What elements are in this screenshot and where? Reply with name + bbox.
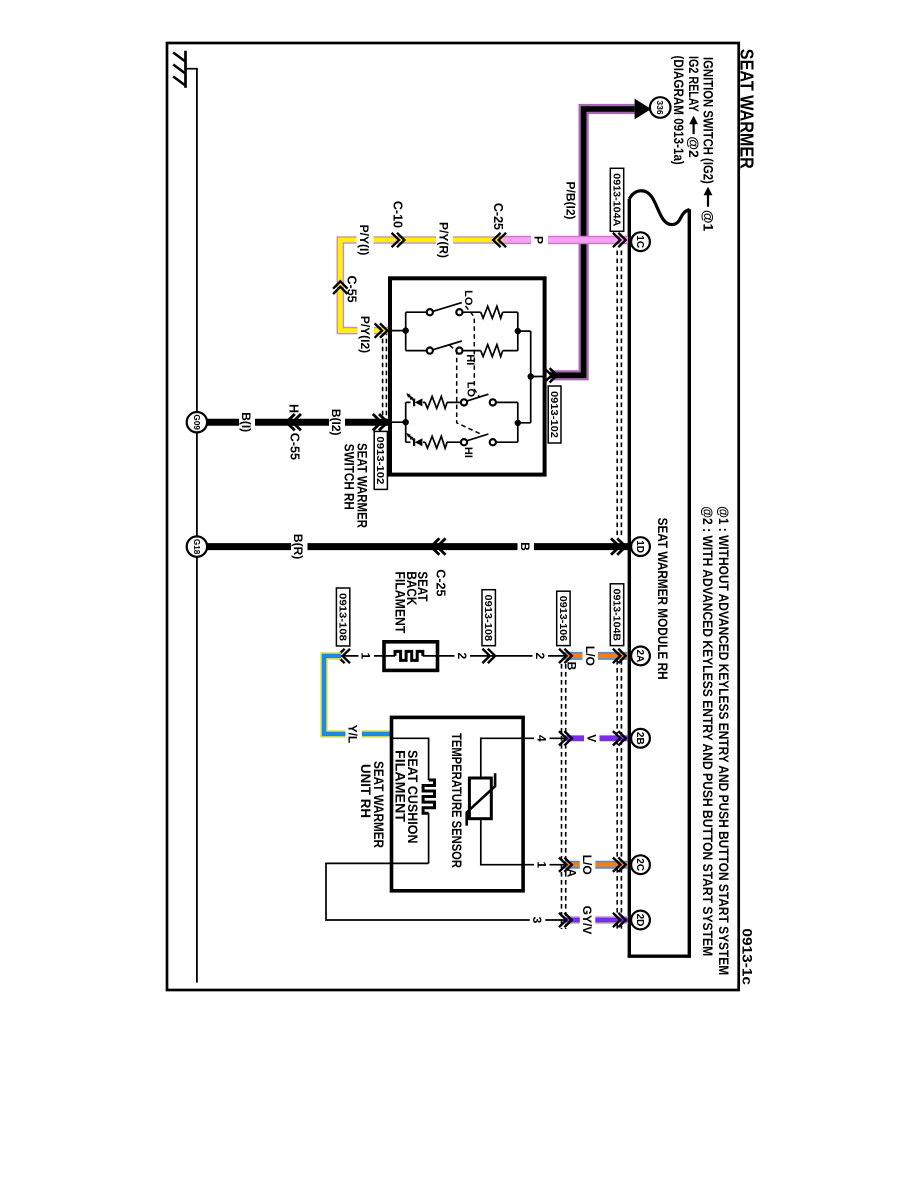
svg-text:LO: LO — [465, 382, 477, 398]
svg-text:Y/L: Y/L — [346, 725, 360, 744]
svg-text:P/B(I2): P/B(I2) — [564, 181, 578, 219]
svg-text:2: 2 — [455, 653, 469, 660]
svg-text:3: 3 — [530, 917, 544, 924]
svg-text:TEMPERATURE SENSOR: TEMPERATURE SENSOR — [449, 733, 464, 868]
svg-text:0913-108: 0913-108 — [482, 595, 493, 642]
svg-text:L/O: L/O — [580, 855, 594, 875]
svg-text:C-10: C-10 — [391, 201, 405, 228]
svg-text:B: B — [518, 542, 532, 551]
svg-text:0913-106: 0913-106 — [557, 596, 568, 642]
svg-text:C-25: C-25 — [491, 203, 505, 230]
svg-text:0913-108: 0913-108 — [337, 593, 348, 641]
svg-text:@2 : WITH ADVANCED KEYLESS ENT: @2 : WITH ADVANCED KEYLESS ENTRY AND PUS… — [700, 506, 716, 956]
svg-text:C-55: C-55 — [345, 276, 359, 303]
svg-text:B(I2): B(I2) — [329, 409, 343, 436]
svg-text:L/O: L/O — [583, 646, 597, 666]
svg-text:SWITCH RH: SWITCH RH — [341, 444, 357, 510]
svg-text:SEAT WARMER: SEAT WARMER — [737, 49, 757, 169]
svg-text:0913-102: 0913-102 — [374, 436, 385, 484]
svg-text:B(I): B(I) — [239, 412, 253, 432]
svg-text:P/Y(I): P/Y(I) — [357, 225, 371, 256]
svg-text:FILAMENT: FILAMENT — [393, 571, 408, 634]
svg-text:0913-104A: 0913-104A — [610, 173, 621, 226]
svg-text:H: H — [287, 404, 301, 413]
svg-text:C-25: C-25 — [434, 569, 448, 596]
svg-text:(DIAGRAM 0913-1a): (DIAGRAM 0913-1a) — [671, 56, 687, 165]
svg-text:HI: HI — [464, 354, 476, 365]
svg-text:0913-102: 0913-102 — [548, 391, 559, 438]
svg-text:HI: HI — [462, 447, 474, 458]
svg-text:G18: G18 — [192, 539, 201, 555]
svg-text:SEAT WARMER MODULE RH: SEAT WARMER MODULE RH — [655, 518, 671, 680]
svg-text:GY/V: GY/V — [580, 906, 594, 935]
svg-text:1: 1 — [534, 861, 548, 868]
svg-text:1: 1 — [359, 653, 373, 660]
svg-text:336: 336 — [655, 100, 665, 114]
svg-text:LO: LO — [462, 290, 474, 306]
svg-text:V: V — [584, 734, 598, 742]
svg-text:2A: 2A — [634, 650, 645, 663]
svg-text:4: 4 — [534, 735, 548, 742]
svg-text:0913-1c: 0913-1c — [740, 928, 756, 985]
svg-text:IG2 RELAY: IG2 RELAY — [686, 56, 702, 112]
svg-text:@1: @1 — [700, 210, 716, 232]
svg-text:@1 : WITHOUT ADVANCED KEYLESS: @1 : WITHOUT ADVANCED KEYLESS ENTRY AND … — [716, 506, 732, 975]
svg-text:1C: 1C — [634, 235, 645, 248]
svg-text:G09: G09 — [192, 414, 201, 430]
svg-text:P: P — [532, 236, 546, 244]
svg-text:P/Y(I2): P/Y(I2) — [358, 316, 372, 353]
svg-text:0913-104B: 0913-104B — [610, 589, 621, 641]
svg-text:2B: 2B — [634, 732, 645, 745]
svg-text:UNIT RH: UNIT RH — [358, 764, 373, 818]
svg-text:2D: 2D — [634, 914, 645, 927]
svg-text:1D: 1D — [634, 540, 645, 553]
svg-text:P/Y(R): P/Y(R) — [437, 222, 451, 258]
svg-text:A: A — [565, 869, 579, 878]
svg-text:B: B — [565, 662, 579, 671]
svg-text:FILAMENT: FILAMENT — [393, 750, 408, 823]
svg-text:2: 2 — [533, 653, 547, 660]
svg-text:B(R): B(R) — [291, 534, 305, 559]
svg-text:C-55: C-55 — [288, 433, 302, 460]
svg-text:2C: 2C — [634, 858, 645, 871]
svg-text:@2: @2 — [686, 136, 702, 158]
